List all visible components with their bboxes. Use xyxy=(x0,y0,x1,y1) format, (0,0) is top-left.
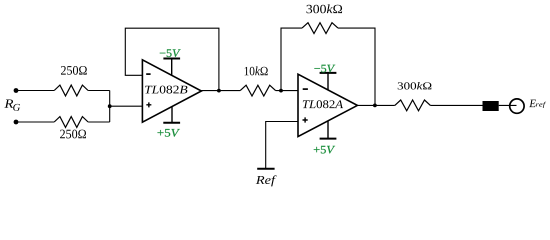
connector block xyxy=(483,101,499,111)
wire op2 plus input to Ref rail xyxy=(266,122,298,169)
wire bus to op-amp1 plus input xyxy=(110,105,143,107)
node junction op1 output xyxy=(217,89,221,93)
resistor 250 bottom xyxy=(54,117,88,128)
wire feedback down to op2 output xyxy=(338,28,375,105)
wire op2 feedback up xyxy=(281,28,302,91)
op-amp U2 V- pin xyxy=(327,73,329,90)
label TL082B xyxy=(145,86,187,94)
resistor 250 top xyxy=(54,85,88,96)
Ref rail bar xyxy=(257,168,274,170)
op-amp U1 plus sign xyxy=(146,102,151,107)
wire vertical bus xyxy=(109,91,111,123)
op-amp U2 TL082A triangle xyxy=(298,74,357,136)
terminal dot top-left xyxy=(14,88,19,93)
wire top to bus xyxy=(88,90,110,92)
terminal dot bottom-left xyxy=(14,120,19,125)
op-amp U2 plus sign xyxy=(303,117,308,122)
op-amp U2 V- rail bar xyxy=(320,72,337,74)
label 300k ohm output xyxy=(398,82,432,90)
label +5V op2 xyxy=(314,146,335,154)
wire bottom to bus xyxy=(88,121,110,123)
label +5V op1 xyxy=(158,129,180,137)
label 250 ohm top xyxy=(61,66,87,75)
op-amp U1 minus sign xyxy=(146,73,150,75)
resistor 300k feedback xyxy=(302,23,338,34)
label RG xyxy=(4,99,20,110)
label -5V op1 xyxy=(160,49,181,57)
label 250 ohm bottom xyxy=(60,130,86,139)
label Eref xyxy=(529,100,546,108)
label Ref xyxy=(256,175,277,186)
op-amp U1 V- rail bar xyxy=(163,58,180,60)
label 300k ohm feedback xyxy=(307,4,343,13)
resistor 10k xyxy=(240,85,275,96)
op-amp U1 V+ pin xyxy=(171,107,173,123)
output terminal circle xyxy=(510,99,524,113)
wire 10k to op2 minus input xyxy=(276,90,298,92)
wire 300k to connector xyxy=(430,104,482,106)
op-amp U1 TL082B triangle xyxy=(142,60,201,122)
label -5V op2 xyxy=(314,65,335,73)
op-amp U2 V+ rail bar xyxy=(320,138,337,140)
wire top-left xyxy=(16,90,54,92)
wire bottom-left xyxy=(16,121,54,123)
node junction op2 minus input xyxy=(279,89,283,93)
op-amp U2 V+ pin xyxy=(327,121,329,139)
label 10k ohm xyxy=(245,66,268,75)
wire op1 output xyxy=(201,90,240,92)
resistor 300k output xyxy=(395,100,431,111)
op-amp U2 minus sign xyxy=(303,88,308,90)
op-amp U1 V- pin xyxy=(171,59,173,76)
wire op1 feedback loop xyxy=(125,28,219,90)
op-amp U1 V+ rail bar xyxy=(163,122,180,124)
wire connector to output circle xyxy=(499,104,517,106)
node junction op2 output xyxy=(373,104,377,108)
wire op2 output xyxy=(357,104,394,106)
node junction bus xyxy=(108,104,112,108)
label TL082A xyxy=(303,100,343,108)
